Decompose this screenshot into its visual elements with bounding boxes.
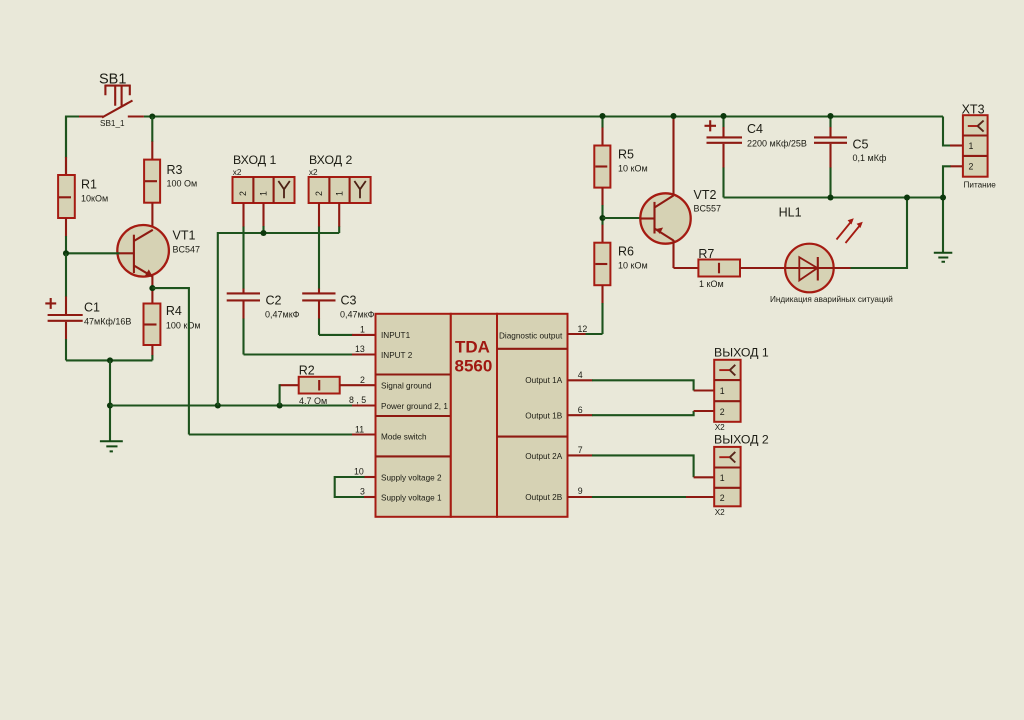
svg-text:R3: R3 [167,163,183,177]
svg-text:2: 2 [720,407,725,417]
capacitor C4 [705,116,743,198]
capacitor C2 [227,293,260,354]
svg-text:Индикация аварийных ситуаций: Индикация аварийных ситуаций [770,295,893,304]
node junction [277,402,283,408]
resistor R7 [698,260,785,277]
svg-text:12: 12 [578,324,588,334]
resistor R5 [594,116,610,218]
node junction [720,113,726,119]
svg-text:ВЫХОД 2: ВЫХОД 2 [714,433,769,447]
svg-text:x2: x2 [233,168,242,177]
pin 8,5 stub [352,404,376,406]
svg-text:4: 4 [578,370,583,380]
svg-text:1: 1 [335,191,345,196]
svg-text:1 кОм: 1 кОм [699,279,724,289]
resistor R1 [58,117,75,254]
node junction [599,215,605,221]
svg-text:Output 2A: Output 2A [525,452,562,461]
wire pin2 VHOD2 [318,203,320,293]
svg-text:BC557: BC557 [694,204,722,214]
svg-text:4.7 Ом: 4.7 Ом [299,396,327,406]
node junction [827,194,833,200]
svg-text:VT2: VT2 [694,188,717,202]
svg-text:Питание: Питание [964,181,997,190]
svg-text:Supply voltage 1: Supply voltage 1 [381,493,442,502]
node junction [940,194,946,200]
wire ground rail [724,196,944,198]
svg-text:2: 2 [314,191,324,196]
svg-text:100 Ом: 100 Ом [167,179,198,189]
connector ВХОД 1 [233,177,295,203]
wire XT3-2 to ground bus [943,166,951,252]
wire rail to XT3 [943,117,951,146]
connector XT3 [963,115,988,177]
ground [100,441,123,451]
svg-text:2: 2 [969,162,974,172]
wire pin9 [568,496,715,498]
pushbutton SB1 [79,85,144,118]
ground [934,253,953,262]
svg-text:INPUT 2: INPUT 2 [381,351,413,360]
connector ВЫХОД 1 [714,360,740,422]
wire pin12 [568,333,603,335]
svg-text:Output 2B: Output 2B [525,493,562,502]
svg-text:VT1: VT1 [173,229,196,243]
svg-text:Output 1B: Output 1B [525,412,562,421]
IC U1 TDA8560 middle section [451,314,497,517]
svg-text:ВЫХОД 1: ВЫХОД 1 [714,346,769,360]
svg-text:0,1 мКф: 0,1 мКф [853,153,887,163]
svg-text:R2: R2 [299,364,315,378]
wire pin7 [568,455,715,477]
IC U1 TDA8560 right section [497,314,568,517]
svg-text:R1: R1 [81,178,97,192]
svg-text:Output 1A: Output 1A [525,376,562,385]
LED HL1 [785,218,863,292]
transistor VT2 [603,116,699,268]
svg-text:10кОм: 10кОм [81,194,108,204]
pin stub XT3-1 [950,144,963,146]
node junction [215,402,221,408]
node junction [149,113,155,119]
wire to INPUT2 [244,353,376,355]
resistor R6 [594,218,610,334]
wire [66,359,152,361]
wire pin1 VHOD2 [338,203,340,233]
svg-text:6: 6 [578,405,583,415]
svg-text:0,47мкФ: 0,47мкФ [265,310,300,320]
svg-text:10 кОм: 10 кОм [618,261,648,271]
svg-text:R5: R5 [618,148,634,162]
svg-text:SB1: SB1 [99,72,126,88]
svg-text:Signal ground: Signal ground [381,382,432,391]
wire emitter to mode switch [152,288,189,434]
svg-text:R6: R6 [618,245,634,259]
node junction [107,402,113,408]
svg-text:10 кОм: 10 кОм [618,164,648,174]
svg-text:3: 3 [360,487,365,497]
node junction emitter VT1 [149,285,155,291]
IC U1 TDA8560 left section [376,314,451,517]
resistor R4 [144,288,161,360]
svg-text:11: 11 [355,425,364,435]
svg-text:Supply voltage 2: Supply voltage 2 [381,473,442,482]
svg-text:x2: x2 [309,168,318,177]
node junction [670,113,676,119]
svg-text:R4: R4 [166,304,182,318]
svg-text:C1: C1 [84,301,100,315]
svg-text:SB1_1: SB1_1 [100,119,125,128]
svg-text:HL1: HL1 [779,206,802,220]
svg-text:X2: X2 [715,423,725,432]
svg-text:8560: 8560 [455,357,493,376]
svg-text:2: 2 [238,191,248,196]
svg-text:C5: C5 [853,138,869,152]
svg-text:BC547: BC547 [173,245,201,255]
svg-text:1: 1 [720,386,725,396]
svg-text:C2: C2 [266,294,282,308]
svg-text:ВХОД 2: ВХОД 2 [309,153,352,167]
svg-text:C4: C4 [747,122,763,136]
wire supply loop [335,477,376,497]
svg-text:1: 1 [969,141,974,151]
svg-text:Diagnostic output: Diagnostic output [499,332,563,341]
wire pin4 [568,380,715,390]
wire mode switch [189,433,376,435]
node junction [599,113,605,119]
wire [109,360,111,441]
svg-text:R7: R7 [698,247,714,261]
wire input ground bus [218,233,339,406]
svg-text:2: 2 [360,375,365,385]
svg-text:Mode switch: Mode switch [381,433,427,442]
svg-text:INPUT1: INPUT1 [381,331,411,340]
svg-text:TDA: TDA [455,338,490,357]
wire LED to rail [834,198,907,269]
connector ВХОД 2 [309,177,371,203]
svg-text:9: 9 [578,486,583,496]
wire [144,115,943,117]
svg-text:C3: C3 [341,294,357,308]
svg-text:13: 13 [355,344,365,354]
svg-text:7: 7 [578,445,583,455]
capacitor C1 [45,253,82,360]
svg-text:1: 1 [360,325,365,335]
node junction [63,250,69,256]
svg-text:Power ground 2, 1: Power ground 2, 1 [381,402,448,411]
wire power ground bus [110,404,353,406]
wire pin6 [568,411,715,415]
wire to INPUT1 [319,334,376,336]
wire [66,117,80,176]
svg-text:XT3: XT3 [962,103,985,117]
svg-text:8 , 5: 8 , 5 [349,395,366,405]
wire base VT1 [66,252,120,254]
svg-text:0,47мкФ: 0,47мкФ [340,310,375,320]
capacitor C3 [302,293,335,335]
svg-text:100 кОм: 100 кОм [166,321,201,331]
svg-text:2200 мКф/25В: 2200 мКф/25В [747,139,807,149]
pin stub XT3-2 [950,165,963,167]
svg-text:1: 1 [720,473,725,483]
node junction [260,230,266,236]
node junction [904,194,910,200]
connector ВЫХОД 2 [714,447,740,506]
transistor VT1 [117,203,169,288]
svg-text:47мКф/16В: 47мКф/16В [84,317,131,327]
svg-text:X2: X2 [715,508,725,517]
resistor R2 [280,377,376,406]
svg-text:10: 10 [354,467,364,477]
node junction [827,113,833,119]
svg-text:2: 2 [720,493,725,503]
capacitor C5 [814,116,847,198]
svg-text:1: 1 [259,191,269,196]
svg-text:ВХОД 1: ВХОД 1 [233,153,276,167]
wire pin2 VHOD1 [262,203,264,233]
resistor R3 [144,117,160,203]
node junction [107,357,113,363]
wire pin1 VHOD1 [242,203,244,293]
